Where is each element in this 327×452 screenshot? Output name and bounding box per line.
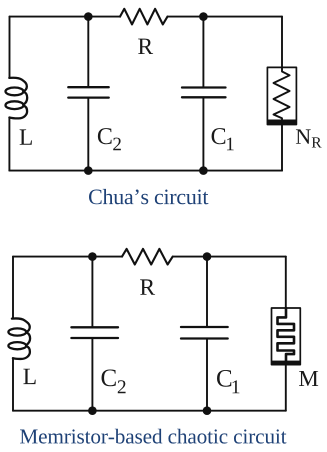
node: circuit 2 bottom-right junction bbox=[203, 406, 212, 415]
inductor L (circuit 2 coil) bbox=[8, 318, 30, 359]
capacitor C1 (circuit 2) plates bbox=[181, 327, 228, 339]
capacitor C2 (circuit 1) plates bbox=[68, 87, 108, 97]
wire: circuit 1 top-right segment bbox=[168, 16, 283, 18]
node: circuit 2 bottom-left junction bbox=[88, 406, 97, 415]
memristor M (circuit 2) bbox=[272, 308, 301, 365]
wire: circuit 2 left rail upper bbox=[12, 257, 14, 319]
wire: circuit 2 C2 branch upper bbox=[91, 257, 93, 328]
wire: circuit 1 C1 branch upper bbox=[202, 17, 204, 88]
label R (circuit 1) bbox=[138, 39, 153, 54]
label C1 (circuit 1) bbox=[212, 128, 234, 150]
wire: circuit 1 right rail upper bbox=[281, 17, 283, 68]
wire: circuit 2 C1 branch lower bbox=[206, 339, 208, 411]
node: circuit 2 top-left junction bbox=[88, 252, 97, 261]
wire: circuit 1 C2 branch lower bbox=[87, 98, 89, 171]
resistor R (circuit 1) zigzag bbox=[120, 9, 168, 25]
capacitor C2 (circuit 2) plates bbox=[71, 327, 118, 338]
wire: circuit 1 top-left segment bbox=[10, 16, 121, 18]
resistor R (circuit 2) zigzag bbox=[122, 249, 173, 265]
wire: circuit 2 right rail upper bbox=[285, 257, 287, 308]
nonlinear resistor NR (Chua diode, circuit 1) bbox=[267, 67, 296, 124]
node: circuit 1 bottom-right junction bbox=[199, 166, 208, 175]
wire: circuit 2 top-left segment bbox=[13, 256, 122, 258]
label M (circuit 2) bbox=[299, 371, 318, 386]
wire: circuit 2 C1 branch upper bbox=[206, 257, 208, 327]
wire: circuit 1 right rail lower bbox=[281, 125, 283, 171]
label C2 (circuit 1) bbox=[98, 128, 121, 150]
wire: circuit 1 bottom rail bbox=[9, 170, 282, 172]
wire: circuit 1 C2 branch upper bbox=[87, 17, 89, 87]
label L (circuit 1) bbox=[20, 129, 32, 144]
capacitor C1 (circuit 1) plates bbox=[182, 88, 226, 98]
caption: Memristor-based chaotic circuit bbox=[20, 429, 286, 444]
node: circuit 2 top-right junction bbox=[203, 252, 212, 261]
wire: circuit 1 C1 branch lower bbox=[202, 97, 204, 170]
wire: circuit 1 left rail lower bbox=[8, 117, 10, 170]
label L (circuit 2) bbox=[23, 369, 35, 384]
label R (circuit 2) bbox=[140, 279, 155, 294]
label C1 (circuit 2) bbox=[217, 370, 239, 393]
wire: circuit 2 left rail lower bbox=[12, 358, 14, 411]
node: circuit 1 top-right junction bbox=[199, 12, 208, 21]
wire: circuit 2 bottom rail bbox=[13, 410, 286, 412]
wire: circuit 2 C2 branch lower bbox=[91, 338, 93, 411]
inductor L (circuit 1 coil) bbox=[6, 78, 28, 119]
wire: circuit 1 left rail upper bbox=[9, 17, 11, 78]
caption: Chua's circuit bbox=[89, 189, 208, 204]
wire: circuit 2 right rail lower bbox=[285, 365, 287, 411]
node: circuit 1 top-left junction bbox=[84, 12, 93, 21]
wire: circuit 2 top-right segment bbox=[173, 256, 286, 258]
node: circuit 1 bottom-left junction bbox=[84, 166, 93, 175]
label C2 (circuit 2) bbox=[102, 369, 126, 393]
label NR (circuit 1) bbox=[296, 129, 322, 147]
